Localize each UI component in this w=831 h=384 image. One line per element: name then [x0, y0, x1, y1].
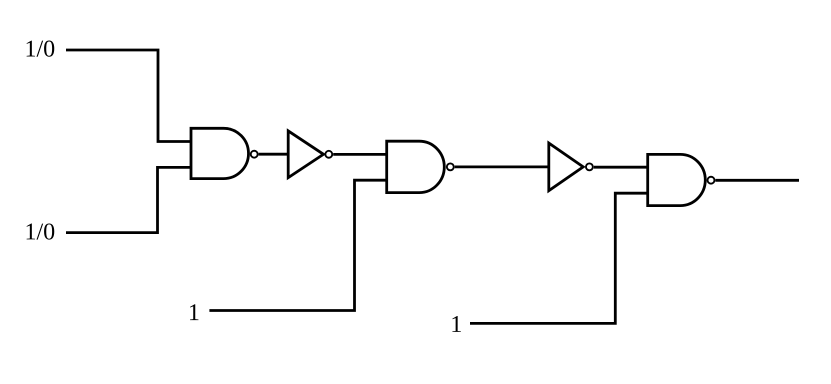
inverter U4 triangle	[549, 143, 583, 191]
node input B label 1/0	[27, 223, 55, 239]
wire input B: horizontal, up, into NAND1 pin 2	[66, 167, 191, 232]
nand gate U1 body	[191, 128, 249, 178]
wire U2 output to NAND U3 pin 1	[333, 153, 387, 156]
wire U1 output to inverter U2	[259, 153, 289, 156]
wire input A: horizontal, down, into NAND1 pin 1	[66, 50, 191, 142]
nand gate U1 output bubble	[251, 151, 258, 158]
wire U4 output to NAND U5 pin 1	[594, 166, 648, 169]
inverter U2 output bubble	[325, 151, 332, 158]
nand gate U5 body	[648, 154, 706, 205]
node input D label 1	[452, 316, 460, 332]
nand gate U3 body	[387, 141, 445, 192]
wire output	[715, 179, 799, 182]
node input A label 1/0	[27, 41, 55, 57]
nand gate U5 output bubble	[708, 177, 715, 184]
wire input D: horizontal, up, into NAND U5 pin 2	[470, 193, 648, 323]
inverter U2 triangle	[288, 131, 323, 178]
nand gate U3 output bubble	[447, 163, 454, 170]
inverter U4 output bubble	[586, 163, 593, 170]
node input C label 1	[190, 304, 198, 320]
wire input C: horizontal, up, into NAND U3 pin 2	[209, 180, 386, 310]
wire U3 output to inverter U4	[455, 165, 549, 168]
